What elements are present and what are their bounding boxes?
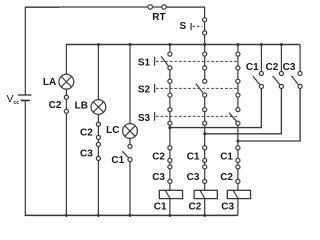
svg-text:C3: C3 — [283, 62, 296, 73]
svg-text:C1: C1 — [111, 155, 124, 166]
node rail-K1 — [168, 214, 171, 217]
wire — [204, 162, 206, 164]
mechanical linkage S2 (dashed) — [138, 84, 237, 96]
contact S2 (NC) — [237, 83, 239, 93]
lamp branch LA — [43, 44, 74, 216]
main bus (top rail) — [66, 44, 300, 46]
wire — [169, 183, 171, 190]
svg-text:C1: C1 — [220, 151, 233, 162]
wire bus corner to LA — [65, 44, 67, 75]
wire past tap node — [237, 125, 239, 145]
svg-text:cc: cc — [13, 100, 19, 106]
svg-text:S: S — [180, 21, 187, 32]
wire LA to bottom rail — [65, 113, 67, 215]
contact C1 (NO) under LC — [122, 151, 128, 158]
contact C2 (NC) — [169, 150, 171, 159]
svg-text:C2: C2 — [220, 172, 233, 183]
node tap-K3 — [236, 140, 239, 143]
svg-text:C3: C3 — [187, 172, 200, 183]
wire bus to LB — [97, 45, 99, 100]
svg-text:C1: C1 — [187, 151, 200, 162]
svg-text:C2: C2 — [152, 151, 165, 162]
wire — [204, 70, 206, 79]
node bus-C1 — [260, 43, 263, 46]
wire C2 down-left to relay column — [205, 88, 282, 133]
holding contact C2 (NO, right side) — [205, 45, 284, 134]
wire — [129, 138, 131, 144]
wire bus down — [169, 45, 171, 53]
bottom rail — [25, 214, 238, 216]
contact C3 (NC) — [169, 169, 171, 179]
contact S1 (NC) — [237, 56, 239, 66]
holding contact C3 (NO, right side) — [238, 45, 302, 142]
wire — [169, 70, 171, 79]
svg-text:LB: LB — [75, 100, 88, 111]
svg-text:RT: RT — [152, 12, 165, 23]
wire top horizontal right of RT — [166, 6, 204, 8]
node bus-K1 — [168, 43, 171, 46]
wire bus to LC — [129, 45, 131, 124]
wire S branch drop — [204, 7, 206, 18]
coil C3 — [227, 190, 250, 198]
wire — [237, 183, 239, 190]
contact S2 (NC) — [169, 83, 171, 93]
node tap-K2 — [203, 132, 206, 135]
battery Vcc — [7, 94, 32, 106]
wire — [204, 97, 206, 107]
svg-text:C3: C3 — [152, 172, 165, 183]
node tap-K1 — [168, 126, 171, 129]
wire — [169, 162, 171, 164]
wire left vertical (source bottom) — [24, 101, 26, 216]
wire LC to bottom rail — [129, 162, 131, 216]
lamp LB — [91, 100, 106, 115]
contact C3 (NC) — [97, 146, 99, 156]
node bus-C2 — [280, 43, 283, 46]
node bus-LB — [97, 43, 100, 46]
wire coil to bottom rail — [237, 199, 239, 216]
coil C1 — [159, 190, 182, 198]
relay branch coil C2 — [187, 45, 218, 216]
contact S1 (NO open) — [161, 56, 168, 66]
lamp LC — [123, 124, 138, 139]
wire bus down — [204, 45, 206, 53]
contact C1 (NC) — [204, 150, 206, 159]
svg-text:S3: S3 — [138, 113, 151, 124]
switch S (closed) — [180, 18, 207, 35]
svg-text:C2: C2 — [49, 100, 62, 111]
contact RT (closed thermal-relay contact) — [148, 5, 166, 23]
coil C2 — [194, 190, 217, 198]
svg-text:C2: C2 — [266, 62, 279, 73]
wire top horizontal (middle segment) — [60, 6, 148, 8]
wire left vertical (source top) — [24, 7, 26, 95]
svg-text:C3: C3 — [221, 202, 234, 213]
wire — [237, 70, 239, 79]
wire — [237, 97, 239, 107]
contact S2 (NO open) — [196, 84, 203, 94]
wire C3 down-left to relay column — [238, 88, 300, 141]
wire S to main bus — [204, 35, 206, 45]
contact C2 (NC) — [97, 126, 99, 135]
contact S3 (NC) — [169, 112, 171, 122]
svg-text:C2: C2 — [189, 202, 202, 213]
wire — [169, 97, 171, 107]
wire top horizontal (dark left segment) — [25, 6, 59, 8]
wire past tap node — [169, 125, 171, 145]
svg-text:C1: C1 — [154, 202, 167, 213]
svg-text:C1: C1 — [246, 62, 259, 73]
wire bus down — [237, 45, 239, 53]
lamp branch LC — [106, 45, 137, 216]
node rail-LC — [129, 214, 132, 217]
wire coil to bottom rail — [169, 199, 171, 216]
contact C2 (NC) — [237, 169, 239, 179]
lamp LA — [59, 74, 74, 89]
node rail-LA — [65, 214, 68, 217]
contact C2 (NC) under LA — [65, 99, 67, 109]
node bus-S/K2 — [203, 43, 206, 46]
svg-text:C3: C3 — [80, 149, 93, 160]
mechanical linkage S1 (dashed) — [138, 57, 237, 69]
wire coil to bottom rail — [204, 199, 206, 216]
node rail-LB — [97, 214, 100, 217]
svg-text:S2: S2 — [138, 85, 151, 96]
relay branch coil C3 — [220, 45, 250, 216]
svg-text:S1: S1 — [138, 58, 151, 69]
wire C1 down-left to relay column — [170, 88, 262, 127]
node rail-K2 — [203, 214, 206, 217]
svg-text:LC: LC — [106, 125, 119, 136]
wire — [204, 183, 206, 190]
wire — [237, 162, 239, 164]
wire — [65, 89, 67, 95]
holding contact C1 (NO, right side) — [170, 45, 264, 128]
contact S3 (NO open) — [229, 113, 236, 122]
contact S1 (NC) — [204, 56, 206, 66]
relay branch coil C1 — [152, 45, 182, 216]
node bus-K3 — [236, 43, 239, 46]
contact S3 (NC) — [204, 112, 206, 122]
contact C3 (NC) — [204, 169, 206, 179]
wire — [97, 139, 99, 142]
node bus-LC — [129, 43, 132, 46]
wire — [97, 114, 99, 122]
lamp branch LB — [75, 45, 106, 216]
contact C1 (NC) — [237, 150, 239, 159]
svg-text:C2: C2 — [80, 127, 93, 138]
wire past tap node — [204, 125, 206, 145]
svg-text:LA: LA — [43, 77, 56, 88]
wire LB to bottom rail — [97, 160, 99, 215]
mechanical linkage S3 (dashed) — [138, 112, 237, 124]
